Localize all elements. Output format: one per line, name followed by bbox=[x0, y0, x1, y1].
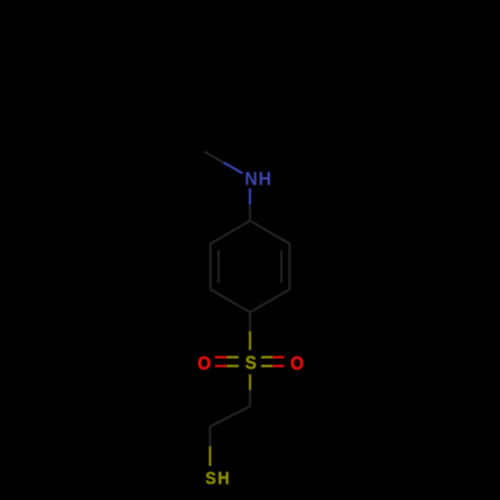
ring C2=C3 (right vertical edge, double) bbox=[288, 244, 290, 290]
ring C4-C5 (bottom-left slant, single) bbox=[210, 289, 250, 312]
ring C5=C6 (left vertical edge, double) bbox=[209, 244, 211, 290]
ring C3-C4 (bottom-right slant, single) bbox=[250, 289, 290, 312]
svg-text:O: O bbox=[198, 353, 211, 374]
bond S-CH2 (sulfur half, olive) bbox=[249, 374, 251, 390]
ring C6-C1 (top-left slant, single) bbox=[210, 221, 250, 244]
bond N-C1 ring (nitrogen half, blue) bbox=[249, 188, 251, 204]
S=O left double bond, lower line bbox=[215, 365, 227, 368]
bond CH2-SH (sulfur half, olive) bbox=[209, 446, 211, 466]
bond N-C1 ring (carbon half, dark) bbox=[249, 205, 251, 221]
S=O right double bond, upper line (sulfur half olive / oxygen half red) bbox=[261, 356, 273, 359]
bond CH3-N (carbon half, dark) bbox=[204, 152, 223, 163]
bond CH2-SH (carbon half, dark) bbox=[209, 427, 211, 447]
svg-text:H: H bbox=[218, 468, 230, 488]
S=O left double bond, upper line (oxygen half red / sulfur half olive) bbox=[215, 356, 227, 359]
bond S-CH2 (carbon half, dark) bbox=[249, 390, 251, 406]
svg-text:S: S bbox=[205, 468, 216, 488]
svg-text:S: S bbox=[245, 352, 256, 373]
svg-text:O: O bbox=[290, 353, 303, 374]
svg-text:N: N bbox=[245, 168, 258, 189]
bond C4-S sulfonyl (carbon half, dark) bbox=[249, 312, 251, 331]
ring C1-C2 (top-right slant, single) bbox=[250, 221, 290, 244]
S=O right double bond, lower line bbox=[261, 365, 273, 368]
svg-text:H: H bbox=[258, 168, 271, 189]
bond C4-S sulfonyl (sulfur half, olive) bbox=[249, 331, 251, 350]
bond CH2-CH2 (dark) bbox=[210, 406, 250, 426]
bond CH3-N (nitrogen half, blue) bbox=[224, 163, 243, 174]
